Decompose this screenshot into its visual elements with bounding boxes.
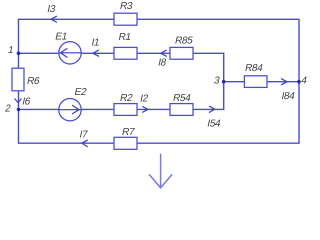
- svg-text:R6: R6: [26, 76, 41, 87]
- current arrow I54: [209, 106, 214, 112]
- wire node3 to node4: [224, 81, 299, 83]
- svg-text:R84: R84: [244, 63, 264, 74]
- current arrow I3: [51, 16, 57, 22]
- node 1 junction dot: [17, 52, 21, 56]
- resistor R85: [170, 47, 193, 59]
- svg-text:2: 2: [4, 104, 12, 115]
- E1 arrow (inside circle, pointing left): [60, 49, 81, 58]
- svg-text:I6: I6: [21, 96, 32, 107]
- wire row node2 to mid riser: [19, 82, 224, 110]
- node 3 junction dot: [222, 80, 226, 84]
- resistor R84: [244, 76, 267, 88]
- resistor R1: [114, 47, 137, 59]
- svg-text:1: 1: [7, 45, 15, 56]
- svg-text:R3: R3: [119, 1, 134, 12]
- down arrow marker below circuit: [149, 154, 171, 188]
- wire bottom side (node2 drop to node4 drop): [19, 82, 300, 144]
- svg-text:I54: I54: [206, 118, 222, 129]
- svg-text:I2: I2: [139, 94, 150, 105]
- svg-text:3: 3: [213, 75, 221, 86]
- svg-text:R85: R85: [174, 35, 194, 46]
- voltage source E1: [59, 42, 81, 64]
- svg-text:I84: I84: [280, 91, 296, 102]
- svg-text:R54: R54: [172, 93, 192, 104]
- current arrow I7: [82, 140, 88, 146]
- current arrow I1: [93, 50, 99, 56]
- svg-text:E2: E2: [73, 87, 88, 98]
- resistor R3: [114, 13, 137, 25]
- svg-text:4: 4: [300, 75, 308, 86]
- resistor R2: [114, 104, 137, 116]
- current arrow I6: [15, 99, 21, 103]
- node 2 junction dot: [17, 108, 21, 112]
- svg-text:I3: I3: [46, 4, 57, 15]
- wire left branch node1 to node2 through R6: [18, 53, 20, 109]
- node 4 junction dot: [297, 80, 301, 84]
- svg-text:I7: I7: [78, 130, 89, 141]
- svg-text:R7: R7: [121, 127, 136, 138]
- resistor R6: [12, 68, 24, 91]
- current arrow I8: [161, 50, 167, 56]
- current arrow I84: [282, 79, 288, 85]
- wire top side (node1 riser to node4 riser): [19, 19, 300, 81]
- wire middle row node1 to mid riser: [19, 53, 224, 81]
- E2 arrow (inside circle, pointing right): [60, 105, 81, 113]
- svg-text:I1: I1: [90, 38, 101, 49]
- svg-text:E1: E1: [54, 31, 69, 42]
- svg-text:R1: R1: [117, 32, 132, 43]
- svg-text:R2: R2: [119, 93, 134, 104]
- resistor R54: [170, 104, 193, 116]
- voltage source E2: [59, 99, 81, 121]
- current arrow I2: [143, 107, 148, 113]
- resistor R7: [114, 137, 137, 149]
- svg-text:I8: I8: [157, 57, 168, 68]
